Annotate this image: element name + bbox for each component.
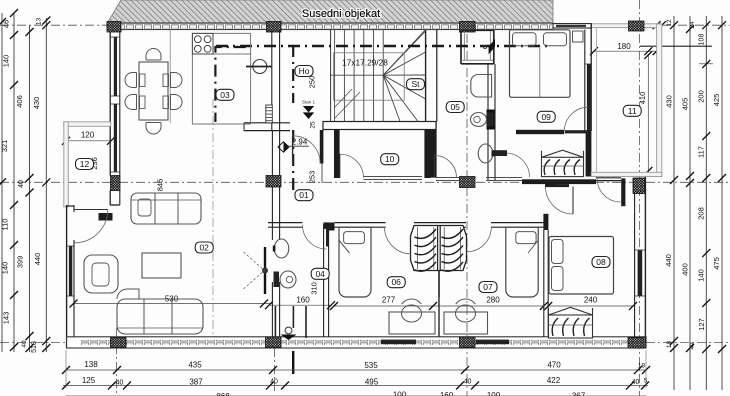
bedroom 09 right wall with window	[590, 24, 592, 131]
hall west wall below kitchen	[271, 131, 273, 176]
bed 09 pillows	[513, 33, 537, 46]
stove with burners	[192, 33, 213, 54]
left dimension ticks chain x=29.5	[26, 28, 34, 36]
svg-text:2.94: 2.94	[292, 138, 308, 147]
grid axis top horizontal	[0, 24, 107, 26]
pipe chase dark block	[487, 110, 495, 130]
pocket sliding door leaf	[264, 247, 266, 294]
room label 10	[381, 154, 399, 165]
bathroom 04 east wall	[323, 224, 325, 337]
right wall window glazing	[638, 250, 643, 296]
right top horizontal extension	[646, 24, 730, 26]
room label 02	[195, 242, 213, 253]
wall stub left of room 08 door	[545, 182, 557, 186]
svg-text:160: 160	[440, 391, 454, 396]
bottom dimension row 3 (clipped)	[66, 395, 646, 396]
wardrobe 09 with hangers	[542, 157, 584, 176]
svg-text:140: 140	[2, 55, 11, 68]
bed 06 pillow	[344, 232, 365, 244]
svg-text:280: 280	[486, 296, 500, 305]
svg-text:208: 208	[697, 207, 706, 220]
living room left wall window glazing	[69, 246, 72, 296]
terrace north parapet	[591, 24, 662, 28]
svg-text:Stan 1: Stan 1	[302, 100, 316, 105]
svg-text:04: 04	[315, 269, 325, 279]
room label 04	[311, 268, 329, 279]
svg-text:46: 46	[2, 20, 11, 28]
svg-text:24: 24	[689, 21, 696, 29]
dining chairs	[146, 49, 161, 60]
svg-text:430: 430	[32, 97, 41, 110]
desk and chair 07	[444, 312, 488, 334]
svg-text:40: 40	[632, 379, 640, 386]
svg-text:49: 49	[689, 342, 696, 350]
bathroom 05 toilet	[487, 113, 494, 127]
door hall pocket	[506, 153, 530, 177]
hall east wall jamb	[320, 130, 324, 164]
coffee table	[142, 253, 181, 278]
svg-text:140: 140	[1, 262, 10, 275]
bottom vertical extension lines	[65, 350, 67, 388]
kitchen counter outline	[192, 33, 250, 124]
svg-text:09: 09	[541, 112, 551, 122]
bath 05 bedroom 09 divider wall	[487, 64, 489, 181]
sofa bottom (three-seat)	[117, 299, 203, 334]
left dimension ticks chain x=14	[10, 9, 18, 17]
svg-text:120: 120	[81, 131, 95, 140]
svg-text:25: 25	[310, 121, 317, 129]
nightstand room 09	[573, 31, 584, 42]
living hall divider wall with pocket-door opening	[271, 187, 273, 240]
right dimension ticks	[670, 21, 678, 29]
hall east boundary thin line	[321, 164, 323, 184]
middle row columns	[111, 176, 121, 191]
svg-text:5: 5	[644, 378, 648, 385]
room label 03	[216, 89, 234, 100]
svg-text:425: 425	[712, 94, 721, 107]
door room 06	[385, 227, 412, 254]
grid axis vertical x=412 stub above band	[411, 0, 413, 23]
svg-text:475: 475	[712, 257, 721, 270]
kitchen floor boundary line	[169, 30, 171, 123]
svg-text:03: 03	[220, 90, 230, 100]
shower head symbol	[285, 327, 292, 334]
svg-text:11: 11	[628, 106, 637, 116]
grid axis vertical x=639.5	[639, 0, 641, 396]
svg-text:406: 406	[15, 95, 24, 108]
living room left wall	[66, 205, 68, 348]
svg-text:180: 180	[617, 42, 631, 51]
sofa top (two-seat)	[131, 193, 201, 224]
room label 01	[295, 190, 313, 201]
inner room-width dimension line	[74, 303, 273, 305]
wardrobe hanger arcs right	[442, 229, 464, 238]
svg-text:367: 367	[572, 392, 586, 396]
wardrobe 08 with hangers	[549, 315, 593, 338]
svg-text:240: 240	[584, 296, 598, 305]
svg-text:40: 40	[18, 180, 25, 188]
svg-text:St: St	[411, 79, 420, 89]
bathroom 05 shower tray	[471, 75, 492, 98]
svg-text:Ho: Ho	[299, 66, 310, 76]
svg-text:430: 430	[665, 95, 674, 108]
wall-above dashed vertical at entry x=293	[292, 45, 294, 103]
kitchen radiator ladder	[266, 105, 273, 123]
svg-text:100: 100	[393, 391, 407, 396]
dining chair seat pads	[140, 74, 146, 87]
bottom wall columns	[111, 338, 127, 348]
door room 08	[546, 187, 574, 215]
bathroom 04 toilet	[274, 272, 280, 288]
pocket door dashed cross	[244, 252, 265, 271]
svg-text:495: 495	[365, 378, 379, 387]
bed 06	[339, 227, 371, 297]
bottom wall windows rooms 06 07	[381, 340, 416, 345]
terrace floor edge line	[596, 28, 598, 173]
svg-text:10: 10	[385, 154, 395, 164]
svg-text:845: 845	[156, 179, 165, 192]
wall between rooms 07 and 08	[543, 230, 545, 337]
room label 06	[387, 277, 405, 288]
corridor east end wall and stub	[596, 177, 621, 179]
terrace width dimension 180	[594, 50, 657, 52]
grid axis vertical x=116.5	[116, 328, 118, 394]
svg-text:160: 160	[296, 296, 310, 305]
grid axis bottom horizontal	[0, 341, 730, 343]
bottom dimension row 2	[63, 385, 648, 387]
door room 09	[564, 107, 588, 131]
right dimension chain lines	[673, 16, 675, 390]
door room 10	[340, 154, 364, 178]
corridor south wall stub at living side	[329, 223, 335, 231]
left dimension ticks chain x=46.3	[42, 17, 50, 25]
svg-text:399: 399	[16, 256, 25, 269]
right extension line y=63.8 under 108	[699, 63, 713, 65]
bottom dimension row 1	[66, 369, 646, 371]
bed 07	[506, 227, 538, 297]
room label 07	[479, 282, 497, 293]
room label 08	[592, 257, 610, 268]
shaft closet walls top of bath 05	[460, 30, 462, 64]
neighbour building hatched band (Susedni objekat)	[108, 0, 554, 23]
svg-text:02: 02	[199, 243, 209, 253]
double wardrobe between 06 and 07	[411, 226, 467, 271]
svg-text:310: 310	[310, 282, 319, 295]
svg-text:400: 400	[681, 263, 690, 276]
kitchen hall divider wall x=272-280 upper	[271, 30, 273, 131]
left dimension ticks chain x=2	[0, 18, 6, 26]
svg-text:08: 08	[596, 257, 606, 267]
corner wall between 07 and corridor	[543, 214, 548, 230]
svg-text:06: 06	[391, 277, 401, 287]
bathroom 04 north wall	[268, 222, 303, 224]
corridor wall segment between 05 door and column	[436, 177, 460, 179]
room 10 west wall	[334, 130, 340, 179]
svg-text:125: 125	[82, 376, 96, 385]
right dimension chain 410 terrace	[647, 54, 649, 172]
svg-text:13: 13	[36, 18, 43, 26]
hall pocket south wall	[522, 179, 596, 184]
svg-text:422: 422	[547, 376, 561, 385]
svg-text:100: 100	[487, 391, 501, 396]
room label 11	[623, 105, 641, 116]
door room 07	[467, 227, 492, 252]
stairs bath05 divider wall	[425, 30, 427, 122]
svg-text:143: 143	[2, 312, 11, 325]
thin corridor wall segments y=178	[486, 177, 522, 179]
dining table	[139, 62, 168, 120]
svg-text:277: 277	[382, 296, 396, 305]
bed 07 pillow	[516, 232, 536, 244]
corridor south wall segments (bedroom north walls)	[335, 222, 386, 224]
left wall stub below mid column	[109, 191, 111, 206]
left outer wall upper section	[109, 32, 111, 176]
grid axis vertical x=213 living room	[212, 99, 214, 344]
stairwell west boundary	[330, 30, 332, 122]
room label 05	[446, 102, 464, 113]
top wall band with masonry pattern	[107, 23, 553, 29]
svg-text:410: 410	[638, 92, 647, 105]
svg-text:108: 108	[699, 34, 706, 46]
grid axis vertical x=467	[466, 0, 468, 396]
bath 05 black valve symbol	[489, 39, 495, 47]
bathroom 05 washbasin	[478, 144, 493, 163]
room label 09	[537, 111, 555, 122]
bedroom 09 right wall solid lower part	[586, 131, 592, 177]
svg-text:868: 868	[216, 392, 230, 396]
living room north wall at balcony door	[67, 205, 74, 207]
grid axis middle horizontal	[0, 181, 730, 183]
room label Ho	[295, 66, 313, 77]
right extension line y=46	[640, 45, 712, 47]
staircase inner outline	[334, 53, 405, 100]
door bathroom 04	[303, 225, 327, 249]
svg-text:250: 250	[308, 76, 317, 89]
room label 12	[76, 159, 94, 170]
svg-text:40: 40	[21, 340, 28, 348]
bed 08 pillows	[552, 240, 564, 264]
svg-text:405: 405	[681, 98, 690, 111]
balcony 12 width dimension 120	[66, 140, 111, 142]
wall-above dashed line kitchen L	[215, 47, 245, 122]
svg-text:40: 40	[270, 379, 278, 386]
svg-text:117: 117	[697, 146, 706, 158]
section marker below entry wall	[292, 351, 294, 374]
door bathroom 05	[435, 156, 457, 178]
wardrobe center pole to floor	[438, 271, 440, 298]
level marker 2.94	[278, 142, 289, 152]
svg-text:40: 40	[116, 380, 124, 387]
room 10 north wall	[323, 122, 436, 130]
left wall window glazing upper	[114, 37, 117, 96]
room 10 east wall	[424, 130, 430, 179]
svg-text:01: 01	[299, 190, 309, 200]
svg-text:05: 05	[450, 102, 460, 112]
svg-text:440: 440	[33, 253, 42, 266]
terrace south parapet	[591, 172, 662, 176]
terrace east parapet	[657, 24, 662, 177]
door corridor east end	[597, 179, 620, 202]
desk and chair 06	[389, 312, 435, 334]
right outer wall lower section	[644, 177, 646, 348]
grid axis vertical x=274.5	[274, 348, 276, 394]
svg-text:253: 253	[308, 171, 317, 184]
top wall columns	[107, 22, 121, 33]
svg-text:12: 12	[666, 19, 673, 27]
svg-text:518: 518	[31, 341, 38, 353]
svg-text:140: 140	[697, 269, 706, 282]
door balcony to living	[75, 209, 108, 211]
wall-above dashed line along y=46	[216, 45, 552, 47]
kitchen south wall	[244, 122, 290, 124]
room 10 south thin wall	[364, 176, 423, 178]
svg-text:127: 127	[697, 318, 706, 331]
bathroom 04 washbasin	[274, 239, 289, 258]
room label St	[407, 79, 425, 90]
balcony 12 parapet	[64, 122, 111, 127]
wardrobe hanger arcs left	[415, 229, 437, 238]
bedroom 09 north wall	[553, 24, 591, 28]
wardrobe rod lines	[417, 227, 419, 269]
svg-text:17x17.29/28: 17x17.29/28	[342, 58, 388, 68]
room 09 south wall	[516, 130, 564, 134]
svg-text:110: 110	[1, 219, 10, 231]
staircase treads	[334, 30, 336, 122]
svg-text:07: 07	[483, 282, 493, 292]
bathroom 04 shower partition walls	[274, 306, 276, 338]
svg-text:12: 12	[80, 159, 90, 169]
svg-text:535: 535	[364, 361, 378, 370]
svg-text:18: 18	[666, 341, 673, 349]
staircase winder radiating lines	[383, 31, 425, 75]
bed 08 double	[549, 237, 614, 295]
svg-text:40: 40	[464, 379, 472, 386]
armchair	[84, 255, 118, 293]
left dimension chain lines	[1, 13, 3, 352]
apartment entry door	[292, 136, 294, 164]
svg-text:321: 321	[0, 140, 9, 153]
svg-text:Susedni objekat: Susedni objekat	[302, 8, 380, 20]
svg-text:440: 440	[664, 254, 673, 267]
staircase up arrow line	[334, 92, 360, 119]
svg-text:470: 470	[547, 361, 561, 370]
bed 09 double	[510, 30, 571, 98]
svg-text:387: 387	[189, 378, 203, 387]
svg-text:435: 435	[188, 361, 202, 370]
kitchen sink circle with bar	[253, 60, 267, 74]
svg-text:18: 18	[638, 363, 646, 370]
svg-text:200: 200	[697, 90, 706, 103]
svg-text:138: 138	[84, 360, 98, 369]
bottom wall band with masonry pattern	[67, 337, 646, 348]
wall between rooms 06 and 07	[438, 271, 440, 338]
